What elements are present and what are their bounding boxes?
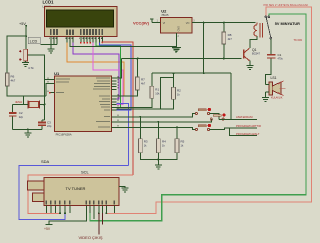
- node LCD label: [28, 37, 40, 44]
- wire R2 loop: [117, 77, 174, 109]
- U1 right pin stubs: [112, 78, 117, 127]
- wire pullup rail H2: [152, 73, 231, 119]
- LCD pin name smudges: [50, 29, 103, 35]
- wire crystal right / C3 / OSC: [40, 80, 50, 121]
- svg-text:TK 003: TK 003: [294, 38, 303, 42]
- wire bundle RS orange: [67, 43, 124, 97]
- wire button nets to labels: [210, 119, 257, 135]
- wire LCD label to LCD VDD/VEE: [40, 43, 57, 45]
- svg-text:R8: R8: [228, 33, 232, 37]
- relay RL1 switch: [265, 16, 272, 39]
- wire bundle E purple: [73, 43, 119, 100]
- junction R7 top: [137, 58, 139, 60]
- ground under LCD VSS: [47, 43, 54, 54]
- wire bundle D4 magenta: [93, 43, 123, 105]
- capacitor C2: [9, 105, 24, 130]
- unconnected LCD data pin ends D0-D3: [80, 42, 91, 44]
- svg-text:22p: 22p: [47, 124, 52, 128]
- wire crystal left / C2 node: [13, 83, 50, 104]
- button SW2: [117, 114, 226, 122]
- svg-text:PIC16F628A: PIC16F628A: [56, 132, 72, 136]
- svg-text:SDA: SDA: [41, 159, 50, 164]
- resistor R3: [138, 116, 147, 153]
- svg-text:R2: R2: [177, 89, 181, 93]
- wire SCL loop salmon: [28, 175, 133, 214]
- wire stub2: [102, 213, 104, 225]
- svg-text:R3: R3: [144, 140, 148, 144]
- svg-text:+5V: +5V: [44, 227, 51, 231]
- junction crystal-right: [44, 104, 46, 106]
- wire tuner +5V: [46, 213, 87, 224]
- svg-text:VIDEO ÇIKIŞ: VIDEO ÇIKIŞ: [79, 235, 103, 240]
- svg-text:C2: C2: [19, 111, 23, 115]
- junction U2 out: [203, 22, 205, 24]
- wire U2 out rail: [192, 22, 256, 24]
- wire bundle D6 blue: [99, 43, 131, 111]
- junction H2: [203, 72, 205, 74]
- wire bundle D5 green: [96, 43, 120, 108]
- svg-text:4k7: 4k7: [11, 79, 16, 83]
- junction R bus: [157, 159, 159, 161]
- svg-text:Q1: Q1: [252, 48, 257, 52]
- svg-text:U2: U2: [161, 9, 167, 14]
- svg-text:C1: C1: [278, 53, 282, 57]
- wire Q1 emitter / ground: [247, 61, 254, 70]
- svg-text:LS1: LS1: [271, 76, 277, 80]
- resistor R5: [175, 126, 185, 152]
- U1 left pin stubs: [50, 80, 55, 93]
- wire green relay loop: [90, 14, 306, 221]
- wire SDA blue riser: [117, 103, 129, 165]
- svg-text:BC547: BC547: [252, 52, 260, 56]
- wire bundle D7 red: [102, 42, 133, 175]
- junction R8 bottom: [223, 58, 225, 60]
- svg-text:VCC(9V): VCC(9V): [133, 20, 150, 25]
- potentiometer RV1: [19, 49, 44, 79]
- wire RW to ground: [70, 43, 180, 53]
- crystal X1: [15, 100, 40, 108]
- ground osc bus: [24, 129, 31, 137]
- TV tuner U3: [28, 178, 119, 206]
- svg-text:10k: 10k: [155, 92, 160, 96]
- resistor R2: [172, 87, 182, 99]
- U2 7805 regulator: [157, 9, 196, 38]
- capacitor C1: [265, 39, 283, 84]
- wire +5V to R6: [7, 36, 26, 55]
- wire audio stub: [93, 213, 95, 219]
- wire R2 top to rail: [173, 73, 175, 77]
- svg-text:C3: C3: [47, 120, 51, 124]
- svg-text:VO: VO: [186, 21, 190, 25]
- svg-text:22p: 22p: [19, 115, 24, 119]
- junction R2 top rail: [173, 72, 175, 74]
- resistor R6: [5, 55, 15, 86]
- wire +5V to pot: [25, 26, 27, 50]
- junction gnd bus: [27, 128, 29, 130]
- wire U2 out drop: [203, 23, 205, 74]
- svg-text:PROGRAMI AZALT: PROGRAMI AZALT: [236, 132, 260, 136]
- ground LS1: [262, 92, 269, 102]
- TV tuner bottom pins: [47, 206, 115, 214]
- LCD pins: [51, 36, 103, 42]
- wire R6 bottom to C2: [7, 86, 24, 96]
- svg-text:5V MINYATUR: 5V MINYATUR: [275, 22, 300, 26]
- junction +5V/R6 wire: [25, 35, 27, 37]
- LCD1 module: [43, 0, 118, 36]
- wire salmon PIR loop: [106, 7, 311, 214]
- svg-text:U1: U1: [54, 71, 60, 76]
- button SW3: [117, 124, 211, 131]
- svg-text:78L05: 78L05: [161, 13, 169, 17]
- resistor R7: [117, 59, 146, 97]
- wire Q1 collector: [250, 36, 257, 48]
- resistor R4: [157, 121, 167, 153]
- wire main +5V horizontal H1: [117, 59, 242, 79]
- ground under pot: [22, 61, 29, 66]
- junction R8 top: [223, 22, 225, 24]
- wire video out: [98, 213, 100, 234]
- relay RL1 coil: [254, 23, 263, 38]
- TV tuner pin name smudges: [46, 200, 115, 204]
- capacitor C3: [38, 120, 52, 129]
- U1 PIC16F628A: [54, 71, 111, 136]
- ground U2: [172, 33, 181, 52]
- junction tuner pins: [59, 212, 61, 214]
- ground R bus: [155, 160, 162, 170]
- speaker LS1: [265, 76, 285, 100]
- svg-text:PROGRAMI ARTTIR: PROGRAMI ARTTIR: [236, 124, 261, 128]
- transistor Q1: [244, 48, 261, 61]
- svg-text:GND: GND: [177, 26, 180, 32]
- svg-text:LCD1: LCD1: [43, 0, 55, 5]
- LCD pin numbers: [49, 37, 102, 39]
- svg-text:R7: R7: [141, 78, 145, 82]
- svg-text:R5: R5: [181, 140, 185, 144]
- +5V power terminal: [19, 22, 27, 27]
- svg-text:R4: R4: [162, 140, 166, 144]
- svg-text:470u: 470u: [278, 58, 284, 61]
- button SW1: [117, 108, 219, 119]
- svg-text:4MHz: 4MHz: [15, 100, 23, 104]
- svg-text:4k7: 4k7: [141, 82, 146, 86]
- svg-text:R1: R1: [155, 88, 159, 92]
- svg-text:ASM EKRANI: ASM EKRANI: [236, 115, 253, 119]
- U1 pin numbers: [48, 76, 119, 127]
- svg-text:LCD: LCD: [30, 40, 38, 44]
- junction D7: [101, 41, 103, 43]
- resistor R1: [117, 73, 161, 107]
- svg-text:VI: VI: [163, 21, 166, 25]
- svg-text:SCL: SCL: [81, 170, 90, 175]
- resistor R8: [222, 23, 232, 59]
- wire SDA loop: [19, 166, 129, 220]
- U1 pin name smudges: [56, 78, 110, 128]
- ground tuner right: [119, 187, 129, 193]
- svg-text:4.7k: 4.7k: [28, 66, 34, 70]
- svg-text:KULAKLIK: KULAKLIK: [271, 97, 283, 100]
- wire C2/C3 ground bus: [13, 128, 42, 130]
- wire R3R4R5 ground bus: [140, 153, 177, 160]
- U1 MCLR dangling: [49, 92, 51, 94]
- svg-text:+5V: +5V: [19, 22, 26, 26]
- wire VCC to U2: [152, 22, 161, 24]
- svg-text:TV TUNER: TV TUNER: [66, 186, 86, 191]
- svg-text:4k7: 4k7: [228, 37, 233, 41]
